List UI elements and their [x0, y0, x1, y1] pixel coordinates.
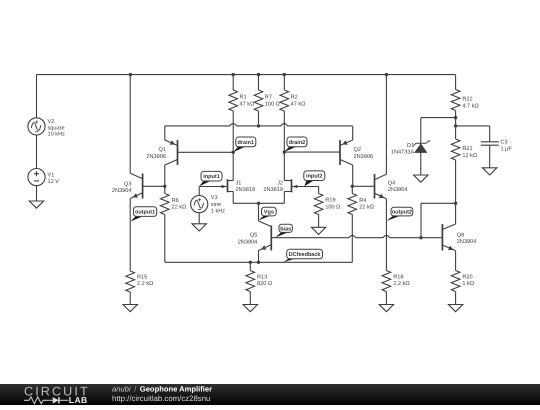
svg-text:D1: D1 — [407, 143, 414, 149]
node flag input1 — [199, 171, 222, 186]
svg-text:R18: R18 — [393, 274, 403, 280]
node junction top rail R1 — [232, 73, 235, 76]
svg-text:2N3904: 2N3904 — [112, 188, 132, 194]
node flag output1 — [130, 207, 157, 222]
transistor Q3 2N3904 — [112, 75, 165, 271]
transistor J2 2N3819 — [263, 179, 318, 203]
wire top +12V rail — [37, 74, 456, 76]
node junction R7 emitter bus — [257, 124, 260, 127]
footer CircuitLab bar — [0, 384, 540, 405]
svg-text:drain2: drain2 — [289, 140, 306, 146]
svg-text:input1: input1 — [203, 174, 220, 180]
svg-text:R21: R21 — [462, 146, 472, 152]
node junction DCfeedback Q5 emitter — [257, 261, 260, 264]
resistor R1 47k — [229, 75, 254, 111]
transistor J1 2N3819 — [199, 179, 255, 203]
svg-text:Geophone Amplifier: Geophone Amplifier — [140, 384, 212, 393]
wire R1 bottom to drain1/J1 — [232, 111, 234, 181]
svg-text:Q3: Q3 — [124, 182, 131, 188]
resistor R21 12k — [451, 139, 477, 160]
wire input2 to R19 — [318, 187, 320, 194]
svg-text:J1: J1 — [236, 180, 242, 186]
node flag drain2 — [284, 137, 307, 152]
transistor Q8 2N3904 — [442, 203, 476, 270]
wire R22 bottom — [455, 111, 457, 140]
svg-text:drain1: drain1 — [238, 140, 255, 146]
svg-text:V3: V3 — [211, 195, 218, 201]
wire R7 bottom stub — [258, 111, 260, 126]
wire to C3 — [456, 125, 490, 127]
wire hop bias over R4 column — [349, 235, 356, 237]
svg-text:anubi: anubi — [112, 384, 131, 393]
wire left rail V2 top — [36, 75, 38, 118]
resistor R18 2.2k — [382, 271, 409, 292]
resistor R4 22k — [348, 194, 374, 215]
svg-text:12 kΩ: 12 kΩ — [462, 152, 477, 159]
svg-text:4.7 kΩ: 4.7 kΩ — [462, 103, 478, 110]
wire V3 to ground — [198, 213, 200, 224]
node flag DCfeedback — [284, 249, 323, 262]
svg-text:22 kΩ: 22 kΩ — [172, 204, 187, 211]
svg-text:R15: R15 — [137, 274, 147, 280]
svg-text:V2: V2 — [48, 119, 55, 125]
svg-text:sine: sine — [211, 201, 221, 208]
wire R2 bottom to drain2/J2 — [283, 111, 285, 181]
svg-text:R1: R1 — [240, 95, 247, 101]
wire V1 to ground — [36, 186, 38, 201]
svg-text:2N3906: 2N3906 — [146, 154, 166, 160]
transistor Q1 2N3906 — [146, 126, 233, 186]
svg-text:1N4733A: 1N4733A — [391, 150, 415, 156]
svg-text:R22: R22 — [462, 97, 472, 103]
wire DCfeedback bus — [165, 261, 352, 263]
svg-text:R2: R2 — [291, 95, 298, 101]
source V3 sine 1kHz — [191, 195, 226, 214]
transistor Q4 2N3904 — [352, 75, 407, 271]
transistor Q5 2N3904 — [238, 203, 272, 262]
resistor R20 1k — [451, 271, 474, 292]
svg-text:10 kHz: 10 kHz — [48, 131, 66, 138]
node junction Q4 base / R4 — [351, 185, 354, 188]
wire R20 to ground — [455, 292, 457, 305]
node junction source bus Vgs — [257, 202, 260, 205]
svg-text:http://circuitlab.com/cz28snu: http://circuitlab.com/cz28snu — [112, 394, 210, 403]
node junction top rail R7 — [257, 73, 260, 76]
ground below R18 — [379, 305, 393, 312]
wire Q2 collector to R4 — [351, 186, 353, 193]
svg-text:1 kΩ: 1 kΩ — [462, 280, 474, 287]
capacitor C3 1uF — [481, 126, 513, 168]
svg-text:1 kHz: 1 kHz — [211, 208, 226, 215]
resistor R22 4.7k — [451, 90, 478, 111]
wire Q1 collector to R6 — [164, 186, 166, 193]
svg-text:R20: R20 — [462, 274, 472, 280]
node junction top rail R2 — [283, 73, 286, 76]
svg-text:output1: output1 — [135, 210, 155, 216]
svg-text:Q4: Q4 — [388, 181, 395, 187]
svg-text:LAB: LAB — [69, 395, 88, 405]
svg-text:820 Ω: 820 Ω — [257, 281, 272, 287]
wire input1 to V3 — [198, 187, 200, 196]
svg-text:Q1: Q1 — [159, 147, 166, 153]
svg-text:DCfeedback: DCfeedback — [289, 252, 322, 258]
ground below R19 — [311, 227, 325, 234]
node junction Q1 base / drain1 — [232, 151, 235, 154]
svg-text:R19: R19 — [325, 198, 335, 204]
node junction R22/C3 — [454, 124, 457, 127]
svg-text:R4: R4 — [359, 198, 366, 204]
wire R19 to ground — [318, 215, 320, 228]
node flag input2 — [304, 171, 325, 186]
resistor R15 2.2k — [126, 271, 153, 293]
node junction Q2 base / drain2 — [283, 150, 286, 153]
diode D1 1N4733A zener — [391, 118, 431, 175]
transistor Q2 2N3906 — [284, 126, 373, 186]
svg-text:input2: input2 — [306, 174, 323, 180]
svg-text:R13: R13 — [257, 274, 267, 280]
svg-text:Q5: Q5 — [250, 233, 257, 239]
svg-text:R7: R7 — [265, 95, 272, 101]
svg-text:100 Ω: 100 Ω — [325, 205, 340, 211]
node flag output2 — [386, 207, 412, 221]
node flag drain1 — [233, 137, 256, 152]
ground below R20 — [448, 305, 462, 312]
svg-text:2.2 kΩ: 2.2 kΩ — [393, 280, 409, 287]
node junction Q8 collector — [454, 202, 457, 205]
wire top rail to R22 — [455, 75, 457, 90]
wire hop over R2 column — [281, 124, 288, 126]
svg-text:Q2: Q2 — [354, 147, 361, 153]
svg-text:47 kΩ: 47 kΩ — [240, 101, 255, 108]
svg-text:22 kΩ: 22 kΩ — [359, 204, 374, 211]
ground below R13 — [243, 305, 257, 312]
svg-text:square: square — [48, 125, 65, 131]
resistor R19 100 — [314, 194, 340, 215]
wire R15 to ground — [129, 292, 131, 305]
ground below R15 — [123, 305, 137, 312]
svg-text:C3: C3 — [501, 140, 508, 146]
svg-text:12 V: 12 V — [48, 179, 60, 185]
node flag bias — [275, 224, 292, 237]
source V1 12V — [28, 169, 59, 186]
ground below V3 — [192, 224, 206, 231]
svg-text:2N3904: 2N3904 — [238, 239, 258, 245]
ground below C3 — [483, 168, 497, 175]
svg-text:Vgs: Vgs — [264, 210, 274, 216]
ground below D1 — [414, 175, 428, 182]
wire Q1-R7-Q2 emitter bus — [165, 125, 353, 127]
node junction DCfeedback R13 — [249, 261, 252, 264]
wire J1-J2 source bus — [233, 202, 284, 204]
svg-text:bias: bias — [280, 226, 291, 232]
wire bias Q5 base to Q8 base — [271, 237, 442, 239]
wire Q8 collector-base tie horizontal — [421, 202, 456, 204]
svg-text:J2: J2 — [277, 180, 283, 186]
svg-text:2N3906: 2N3906 — [354, 154, 374, 160]
svg-text:R6: R6 — [172, 198, 179, 204]
ground below V1 — [29, 201, 43, 208]
svg-text:Q8: Q8 — [457, 233, 464, 239]
wire Q8 collector-base tie vertical — [420, 203, 422, 237]
wire R21 bottom to Q8 collector — [455, 160, 457, 203]
wire R6 bottom to DCfeedback — [164, 215, 166, 263]
svg-text:100 Ω: 100 Ω — [265, 102, 280, 108]
svg-text:1 µF: 1 µF — [501, 146, 513, 152]
node junction top rail x=130.4 — [129, 73, 132, 76]
wire hop over R1 column — [230, 124, 237, 126]
node junction bias / Q8 collector tie — [419, 236, 422, 239]
svg-text:2.2 kΩ: 2.2 kΩ — [137, 280, 153, 287]
wire to D1 — [421, 117, 456, 119]
svg-text:V1: V1 — [48, 173, 55, 179]
resistor R6 22k — [161, 194, 187, 215]
wire R18 to ground — [385, 292, 387, 305]
svg-text:2N3819: 2N3819 — [263, 187, 283, 193]
wire R4 bottom to DCfeedback — [351, 215, 353, 263]
node junction Q3 base / R6 — [163, 185, 166, 188]
svg-text:47 kΩ: 47 kΩ — [291, 101, 306, 108]
svg-text:2N3904: 2N3904 — [388, 187, 408, 193]
node flag Vgs — [259, 207, 277, 220]
wire hop bias over output2 column — [383, 235, 390, 237]
wire V2 to V1 — [36, 135, 38, 169]
resistor R13 820 — [246, 262, 272, 291]
node junction R22/D1 — [454, 116, 457, 119]
source V2 square 10kHz — [28, 118, 65, 138]
svg-text:2N3819: 2N3819 — [236, 187, 256, 193]
svg-text:2N3904: 2N3904 — [457, 239, 477, 245]
resistor R2 47k — [280, 75, 305, 111]
svg-text:output2: output2 — [392, 210, 412, 216]
node junction top rail Q4 collector — [385, 73, 388, 76]
resistor R7 100 — [254, 75, 280, 111]
wire R13 to ground — [249, 292, 251, 305]
